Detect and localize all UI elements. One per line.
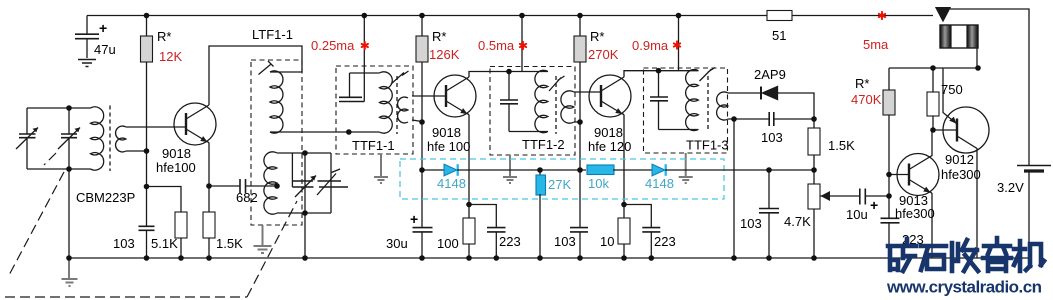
TTF1-2 core dashed: [555, 76, 557, 134]
rail node 27K: [537, 255, 543, 261]
resistor R* 270K body: [574, 36, 586, 62]
inductor antenna coil secondary: [116, 126, 126, 152]
TTF1-1 tank top wire: [350, 72, 380, 74]
capacitor 223 (Q2) plates: [487, 228, 506, 232]
antenna tank left side: [26, 108, 28, 169]
wire secondary bottom down to rail: [733, 119, 735, 258]
transistor Q1 9018 circle: [174, 103, 216, 145]
capacitor 30u plates: [413, 228, 433, 232]
node rail-126K: [419, 13, 425, 19]
rail node 103b: [577, 255, 583, 261]
rail node ttf3: [731, 255, 737, 261]
rail node pot: [811, 255, 817, 261]
node antenna bottom: [66, 166, 72, 172]
rail node 10: [621, 255, 627, 261]
transistor Q2 emitter: [446, 101, 468, 114]
star 5ma: [879, 12, 885, 19]
node earphone bottom: [975, 65, 981, 71]
node TTF1-3 sec bottom: [731, 116, 737, 122]
variable capacitor CBM223P section 1 arrow: [16, 128, 38, 150]
inductor TTF1-2 secondary: [561, 91, 574, 123]
variable capacitor osc trimmer leads: [292, 186, 348, 188]
wire feedback node line: [889, 67, 978, 69]
inductor antenna coil primary: [91, 107, 104, 170]
node osc bottom: [302, 210, 308, 216]
svg-text:hfe 100: hfe 100: [427, 139, 470, 154]
transistor Q5 collector: [957, 136, 977, 258]
resistor 51 body (horizontal): [767, 11, 792, 21]
resistor 10 lead: [623, 205, 625, 219]
wire R126K down to AGC node: [421, 62, 423, 170]
capacitor 103 (Q1 base bypass) plates: [139, 226, 155, 230]
node AGC start: [419, 167, 425, 173]
wire battery positive top: [950, 9, 1029, 165]
transistor Q4 base bar: [908, 164, 910, 186]
svg-text:12K: 12K: [159, 49, 182, 64]
wire 27K to rail: [539, 194, 541, 258]
wire Q2 emitter node to 223: [469, 205, 496, 228]
svg-text:126K: 126K: [429, 47, 460, 62]
battery 3.2V plates: [1017, 165, 1051, 167]
svg-text:103: 103: [113, 236, 135, 251]
wire bias node to 5.1K: [147, 187, 182, 213]
resistor 100 body: [463, 218, 475, 244]
wire AGC node down to 30u: [421, 170, 423, 227]
svg-text:4.7K: 4.7K: [784, 214, 811, 229]
capacitor 223 (Q3) plates: [642, 228, 660, 232]
node AGC 27K: [537, 167, 543, 173]
resistor 1.5K body: [203, 212, 215, 238]
resistor 750 leads: [932, 68, 934, 130]
TTF1-2 dashed box: [490, 67, 575, 156]
wire top power rail: [87, 15, 933, 17]
node AGC filter: [766, 167, 772, 173]
capacitor TTF1-1 tank lead: [349, 73, 351, 97]
TTF1-1 core dashed: [396, 76, 398, 134]
logo char shi: [921, 246, 946, 270]
wire 10u to Q4 base line: [866, 195, 890, 197]
svg-text:LTF1-1: LTF1-1: [252, 27, 293, 42]
capacitor 47u leads: [86, 16, 88, 59]
svg-text:0.25ma: 0.25ma: [311, 38, 355, 53]
variable capacitor CBM223P section 2 arrow: [58, 128, 80, 150]
wire Q4 emitter to rail: [931, 192, 933, 258]
ground for antenna (gray): [62, 258, 78, 286]
node 10u-in: [886, 193, 892, 199]
node Q4 base: [886, 172, 892, 178]
capacitor TTF1-2 tank plates: [500, 100, 518, 104]
node TTF1-1 sec bottom: [419, 119, 425, 125]
star 0.9ma: [674, 41, 680, 48]
TTF1-2 tank top wire: [509, 71, 548, 73]
resistor 100 lead: [468, 205, 470, 219]
variable capacitor osc main leads: [292, 180, 341, 182]
wire 30u to rail: [421, 232, 423, 258]
svg-text:4148: 4148: [437, 176, 466, 191]
osc tank top wire: [277, 152, 331, 154]
svg-text:TTF1-1: TTF1-1: [352, 138, 395, 153]
svg-text:5ma: 5ma: [863, 37, 889, 52]
transistor Q4 collector: [909, 130, 932, 170]
wire 470K top to feedback node: [888, 68, 890, 90]
svg-text:51: 51: [772, 28, 786, 43]
osc tank cap branch left: [291, 153, 293, 187]
TTF1-1 adjustable core arrow: [391, 71, 409, 84]
wire AGC line segment 2: [457, 169, 586, 171]
resistor R* 126K lead: [421, 16, 423, 37]
node rail-0.25ma: [362, 13, 368, 19]
wire 0.9ma feed from rail: [678, 16, 680, 71]
LTF1-1 adjustable core arrow: [259, 61, 274, 75]
node antenna top: [66, 105, 72, 111]
svg-text:10k: 10k: [588, 176, 609, 191]
TTF1-2 tank bottom wire: [509, 131, 548, 133]
node TTF1-3 cap: [656, 68, 662, 74]
svg-text:TTF1-2: TTF1-2: [522, 137, 565, 152]
diode 4148 (first): [444, 164, 457, 176]
logo char ji: [1014, 241, 1044, 271]
svg-text:+: +: [410, 211, 418, 227]
svg-text:TTF1-3: TTF1-3: [686, 138, 729, 153]
wire 2AP9 to detector node: [778, 93, 815, 119]
capacitor 103 (AGC filter) plates: [759, 209, 779, 213]
transistor Q3 emitter: [601, 101, 623, 114]
node Q2 emitter: [466, 202, 472, 208]
rail node 1.5K: [206, 255, 212, 261]
wire 10 to rail: [623, 244, 625, 258]
svg-text:682: 682: [236, 190, 258, 205]
svg-text:hfe300: hfe300: [895, 206, 935, 221]
wire battery negative to rail: [1028, 173, 1030, 259]
capacitor 10u plates: [860, 189, 866, 205]
resistor 5.1K body: [175, 212, 187, 238]
svg-text:CBM223P: CBM223P: [76, 190, 135, 205]
wire Q2 emitter down: [468, 114, 470, 205]
antenna tank top wire: [27, 107, 91, 109]
wire TTF1-1 secondary bottom: [412, 120, 422, 122]
inductor TTF1-3 secondary: [717, 92, 728, 120]
wire AGC line segment 1: [422, 169, 444, 171]
inductor TTF1-2 primary: [535, 70, 548, 132]
svg-text:5.1K: 5.1K: [151, 236, 178, 251]
TTF1-3 core dashed: [707, 76, 709, 132]
svg-text:10u: 10u: [846, 207, 868, 222]
node Q1 emitter: [206, 183, 212, 189]
node Q3 emitter: [621, 202, 627, 208]
wire Q3 collector to TTF1-3: [624, 71, 659, 77]
AGC dashed box (cyan): [400, 159, 724, 199]
svg-text:1.5K: 1.5K: [216, 236, 243, 251]
wire emitter node to 682: [209, 185, 240, 187]
wire AGC node down to 103: [579, 170, 581, 227]
wire TTF1-1 secondary top to Q2 base: [412, 95, 446, 97]
svg-text:223: 223: [654, 234, 676, 249]
inductor TTF1-3 primary: [686, 70, 699, 131]
node AGC 103: [577, 167, 583, 173]
svg-text:+: +: [870, 197, 878, 213]
wire Q1 emitter down: [208, 142, 210, 187]
rail node 103c: [766, 255, 772, 261]
logo char shou: [952, 240, 978, 271]
capacitor 47u plates: [75, 34, 99, 39]
star 0.5ma: [520, 42, 526, 49]
transistor Q3 base bar: [600, 85, 602, 107]
wire R270K down to AGC line: [579, 62, 581, 170]
potentiometer 4.7K wiper arrow: [821, 195, 830, 197]
variable capacitor CBM223P section 2 plates: [61, 134, 77, 138]
svg-text:R*: R*: [590, 29, 604, 44]
rail node osc: [302, 255, 308, 261]
resistor 10k body (cyan, horizontal): [587, 165, 614, 175]
antenna tank bottom wire: [27, 168, 91, 170]
wire 223 to rail: [650, 232, 652, 258]
wire Q1 collector up and over to LTF1-1 primary: [209, 46, 302, 105]
svg-text:9012: 9012: [945, 152, 974, 167]
rail node 5.1K: [178, 255, 184, 261]
svg-text:4148: 4148: [645, 176, 674, 191]
variable capacitor CBM223P section 1 plates: [19, 134, 36, 138]
wire TTF1-2 secondary bottom: [574, 121, 580, 123]
rail node 223a: [494, 255, 500, 261]
wire Q2 collector to TTF1-2: [469, 72, 509, 78]
capacitor TTF1-1 tank plates: [339, 97, 364, 101]
wire LTF1-1 primary bottom to TTF1-1: [270, 131, 379, 133]
wire 103 to ground rail: [146, 231, 148, 259]
diode 2AP9: [763, 87, 778, 100]
transistor Q1 collector: [186, 105, 209, 119]
node rail-12K: [144, 13, 150, 19]
capacitor TTF1-2 tank leads: [508, 72, 510, 132]
svg-text:47u: 47u: [94, 42, 116, 57]
transistor Q5 emitter (PNP): [943, 68, 957, 124]
rail node antenna: [66, 255, 72, 261]
svg-text:270K: 270K: [588, 47, 619, 62]
wire antenna tank down to ground rail: [68, 169, 70, 258]
svg-text:1.5K: 1.5K: [828, 138, 855, 153]
wire 100 to rail: [468, 244, 470, 258]
wire secondary bottom to R12K node: [126, 150, 147, 152]
wire 0.5ma feed from rail: [521, 16, 523, 72]
wire R12K down to bias node: [146, 62, 148, 226]
transistor Q5 9012 circle: [943, 107, 989, 153]
transistor Q1 base bar: [185, 113, 187, 135]
svg-text:3.2V: 3.2V: [997, 180, 1024, 195]
transistor Q4 emitter: [909, 180, 931, 193]
svg-text:30u: 30u: [386, 236, 408, 251]
wire secondary top to Q1 base: [126, 126, 186, 128]
wire AGC filter cap 103 lead: [768, 170, 770, 208]
svg-text:103: 103: [554, 234, 576, 249]
resistor 750 body: [927, 92, 939, 116]
capacitor 682 plates: [240, 179, 246, 193]
capacitor 103 (IF bypass) plates: [570, 228, 588, 232]
node rail-0.9ma: [676, 13, 682, 19]
capacitor TTF1-3 tank plates: [650, 97, 668, 101]
node bias: [144, 184, 150, 190]
gang dashed link line: [5, 153, 297, 297]
node AGC pot: [811, 167, 817, 173]
svg-text:R*: R*: [432, 29, 446, 44]
capacitor 223 (Q4) plates: [881, 218, 900, 223]
red current stars: [362, 12, 886, 49]
rail node 223b: [649, 255, 655, 261]
potentiometer 4.7K lead top: [813, 170, 815, 184]
svg-text:hfe100: hfe100: [156, 160, 196, 175]
capacitor 103 (detector coupling) plates: [769, 112, 774, 126]
logo char kuang: [888, 239, 916, 271]
potentiometer 4.7K body: [808, 184, 820, 209]
svg-text:750: 750: [941, 82, 963, 97]
svg-text:hfe 120: hfe 120: [588, 139, 631, 154]
rail node 30u: [419, 255, 425, 261]
ground for TTF1-1 (gray): [374, 154, 388, 183]
svg-text:9018: 9018: [162, 146, 191, 161]
TTF1-1 dashed box: [336, 66, 413, 154]
earphone body: [940, 25, 951, 48]
wire AGC line segment 3: [613, 169, 652, 171]
inductor LTF1-1 primary: [270, 71, 283, 133]
svg-text:www.crystalradio.cn: www.crystalradio.cn: [886, 278, 1042, 297]
wire 103 to rail: [579, 232, 581, 258]
svg-text:100: 100: [437, 236, 459, 251]
node TTF1-1 bottom: [346, 129, 352, 135]
variable capacitor osc main arrow: [295, 176, 316, 198]
wire TTF1-3 secondary bottom: [728, 118, 814, 120]
transistor Q2 collector: [446, 77, 469, 91]
node sec-R12K: [144, 148, 150, 154]
TTF1-3 adjustable core arrow: [700, 68, 716, 82]
wire TTF1-2 secondary top to Q3 base: [574, 91, 601, 93]
node Q5 base: [930, 127, 936, 133]
node TTF1-2 cap: [506, 69, 512, 75]
node TTF1-2 sec bottom: [577, 119, 583, 125]
svg-text:27K: 27K: [548, 177, 571, 192]
variable capacitor CBM223P section 2 leads: [68, 108, 70, 169]
rail node 103: [144, 255, 150, 261]
logo char yin: [983, 238, 1011, 271]
TTF1-2 adjustable core arrow: [549, 76, 565, 91]
svg-text:R*: R*: [855, 76, 869, 91]
rail node 100: [466, 255, 472, 261]
node LTF1-1 tap: [274, 183, 280, 189]
antenna coil core (dashed): [109, 106, 111, 172]
svg-text:103: 103: [740, 216, 762, 231]
svg-text:9018: 9018: [432, 125, 461, 140]
ground for TTF1-3 (gray): [679, 153, 693, 183]
AGC cyan section: [400, 159, 814, 258]
resistor 10 body: [618, 218, 630, 244]
resistor 1.5K body: [808, 128, 820, 155]
svg-text:223: 223: [499, 234, 521, 249]
star 0.25ma: [362, 42, 368, 49]
diode 4148 (second): [652, 164, 665, 176]
TTF1-3 tank top wire: [659, 70, 699, 72]
ground for TTF1-2 (gray): [503, 155, 517, 183]
resistor R* 12K lead top: [146, 16, 148, 37]
transistor Q2 9018 circle: [434, 75, 476, 117]
osc tank bottom wire: [277, 212, 331, 214]
wire 0.25ma feed from rail: [363, 16, 365, 102]
wire AGC line segment 4: [665, 169, 814, 171]
resistor 27K lead: [539, 170, 541, 175]
wire 470K bottom to Q4 base node: [888, 115, 890, 196]
resistor 1.5K (detector load) leads: [813, 119, 815, 170]
wire Q3 emitter down: [623, 114, 625, 205]
svg-text:10: 10: [600, 234, 614, 249]
TTF1-3 dashed box: [644, 68, 728, 153]
inductor TTF1-1 secondary: [398, 97, 408, 123]
transistor Q5 base bar: [956, 119, 958, 142]
wire earphone to feedback node: [976, 48, 978, 68]
wire TTF1-3 secondary top to 2AP9: [728, 92, 760, 94]
transistor Q3 collector: [601, 77, 624, 91]
LTF1-1 dashed box: [251, 60, 302, 225]
variable capacitor osc trimmer arrow: [317, 169, 340, 195]
node osc top: [302, 150, 308, 156]
wire 223 to rail: [888, 223, 890, 258]
wire 1.5K to rail: [208, 238, 210, 258]
osc tank ground link wire: [304, 153, 306, 258]
wire Q3 emitter node to 223: [624, 205, 651, 228]
node rail-0.5ma: [519, 13, 525, 19]
wire wiper to 10u: [830, 195, 860, 197]
node feedback 750: [930, 65, 936, 71]
resistor R* 12K body: [141, 36, 153, 62]
svg-text:470K: 470K: [851, 92, 882, 107]
resistor R* 470K body: [883, 90, 895, 115]
svg-text:+: +: [99, 20, 107, 36]
wire 5.1K to rail: [180, 238, 182, 258]
wire 223 to rail: [495, 232, 497, 258]
node rail-270K: [577, 13, 583, 19]
wire pot to rail: [813, 209, 815, 258]
transistor Q1 emitter: [186, 129, 208, 142]
svg-text:hfe300: hfe300: [941, 167, 981, 182]
ground for LTF1-1 (gray): [254, 225, 272, 253]
osc tank right side: [330, 153, 332, 213]
capacitor TTF1-3 tank leads: [658, 71, 660, 130]
wire Q4 base: [889, 174, 909, 176]
inductor LTF1-1 secondary (osc tank): [264, 152, 277, 214]
inductor TTF1-1 primary: [379, 72, 392, 133]
TTF1-3 tank bottom wire: [659, 129, 699, 131]
svg-text:0.5ma: 0.5ma: [478, 38, 515, 53]
svg-text:9018: 9018: [594, 125, 623, 140]
node detector out: [811, 116, 817, 122]
transistor Q2 base bar: [445, 85, 447, 107]
ground for 47u: [78, 60, 96, 67]
svg-text:2AP9: 2AP9: [754, 67, 786, 82]
wire 682 to LTF1-1 tap: [246, 185, 278, 187]
svg-text:103: 103: [761, 130, 783, 145]
wire ground rail: [69, 257, 1029, 259]
transistor Q4 9013 circle: [897, 154, 939, 196]
svg-text:0.9ma: 0.9ma: [632, 38, 669, 53]
resistor R* 270K lead: [579, 16, 581, 37]
earphone top arrow: [936, 8, 950, 21]
wire Q4 base node down to 223: [888, 196, 890, 218]
wire emitter to 1.5K: [208, 186, 210, 212]
svg-text:R*: R*: [157, 29, 171, 44]
resistor 27K body (cyan): [536, 175, 546, 195]
transistor Q3 9018 circle: [589, 75, 631, 117]
logo 矿石收音机 (hand drawn strokes): [888, 238, 1044, 271]
resistor R* 126K body: [416, 36, 428, 62]
wire 103 to rail: [768, 213, 770, 258]
wire Q5 base: [933, 129, 957, 131]
